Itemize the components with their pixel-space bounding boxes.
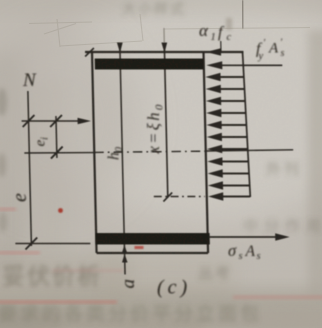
ei dimension line: [55, 116, 58, 158]
faint bleed figure lines top-left (decorative): [29, 14, 310, 47]
compression rebar bar A's (top): [95, 59, 204, 70]
tension rebar bar As (bottom): [95, 233, 210, 245]
tick e at As line: [25, 238, 37, 250]
bleed vertical line top-right (decorative): [242, 0, 245, 29]
tick ei at N line: [50, 115, 62, 127]
label sigma_s As: [228, 241, 261, 262]
dimension line a (below tension bar): [123, 245, 126, 275]
label f'y A's: [256, 38, 285, 63]
f'y A's force arrow (compression steel): [221, 64, 282, 66]
red pen / print marks (decorative): [0, 208, 322, 304]
section top edge / stress block top line: [85, 51, 244, 53]
leader line under alpha1 fc label: [220, 41, 222, 51]
e dimension line: [28, 91, 32, 246]
h0 bottom arrowhead at As level: [122, 245, 128, 254]
stress block right edge: [242, 51, 250, 197]
sigma_s As force arrow (tension steel): [209, 236, 278, 238]
centroid axis: right segment through stress block: [206, 150, 293, 151]
stress block arrow on top line: [206, 48, 221, 56]
h0 top arrowhead (above edge, pointing down): [117, 43, 123, 54]
N load line with arrow: [22, 120, 79, 122]
tick ei at centroid line: [51, 147, 63, 159]
photo grain overlay (decorative): [0, 0, 1, 1]
tick at neutral axis end of x dimension: [163, 193, 172, 202]
dimension line x = xi h0: [163, 28, 165, 50]
tick at top-left corner: [85, 48, 94, 57]
centroid axis: left segment: [24, 152, 94, 154]
neutral axis (dash-dot): [154, 196, 205, 198]
concrete stress arrows alpha1 fc: [205, 73, 250, 201]
As level line (left extension): [15, 243, 90, 245]
centroid axis: dash-dot through section: [94, 151, 205, 152]
dimension line h0: [120, 46, 124, 241]
label alpha1 fc: [199, 21, 232, 43]
column section outline: [92, 52, 208, 253]
xi-h0 top arrowhead (above edge, pointing down): [161, 43, 167, 54]
a bottom arrowhead (below edge, pointing up): [122, 254, 128, 263]
tick e at N line: [22, 115, 34, 127]
